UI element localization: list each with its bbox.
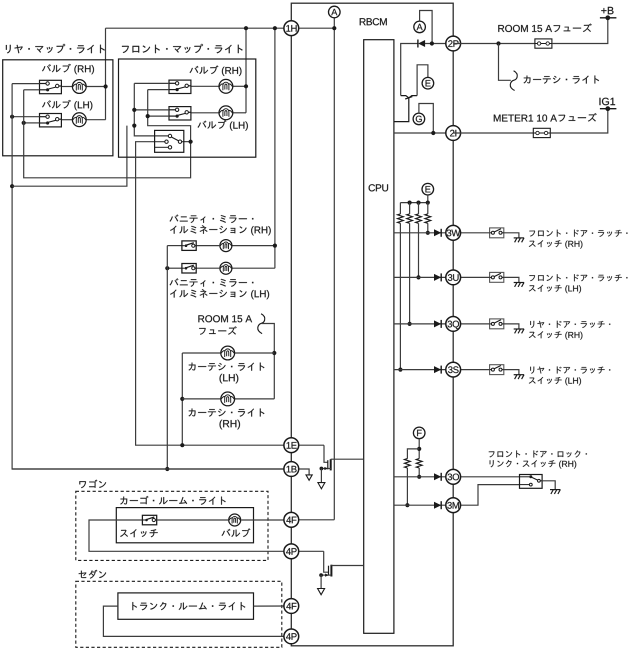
connector 1B [284,462,299,477]
CPU box [364,40,394,634]
wire: 3Q to door switch [453,323,489,325]
fuse: METER1 10 A [533,128,550,137]
label: +B [601,7,613,14]
wire: F branch left [407,449,419,459]
switch: front map LH [169,107,191,120]
label: sedan [79,570,106,579]
wire: front RH bulb to feed [233,85,247,87]
wire: rear LH switch to bulb [61,119,72,121]
connector 4P [284,629,299,644]
label: 3S line2 [529,377,581,385]
node: front link junction [132,124,136,128]
wire: room fuse to +B [552,18,608,44]
wire: 3U to door switch [453,276,489,278]
wire: pull-up R1 top stub [427,203,429,214]
resistor R1 [425,214,431,223]
label: 3W line2 [529,240,583,248]
wire: CPU input row 3M [394,504,453,506]
RBCM enclosure [291,3,453,646]
label: vanity mirror LH line1 [170,278,254,286]
label: CPU [369,184,388,191]
wire: CPU input row 3O [394,476,453,478]
node: rear bottom contacts junction [22,121,26,125]
sedan enclosure (dashed) [76,581,282,647]
resistor R6 [416,459,422,468]
diode: input row 3S [434,366,441,374]
wire: 1H to net-A vertical [291,18,334,520]
wire: CPU input row 3U [394,276,453,278]
node: door switch common junction [189,140,193,144]
wire: 3W to door switch [453,232,489,234]
node: rear top contacts junction [10,115,14,119]
node: G junction on 2I bus [431,131,435,135]
node: courtesy common on 1E wire [180,443,184,447]
ground: door latch 3U [514,283,524,287]
bulb: courtesy light LH [221,346,235,360]
terminal: IG1 [600,106,617,111]
label: front bulb LH [198,120,248,130]
label: 3Q line2 [529,331,583,339]
rear map light enclosure [3,60,113,156]
node: front bottom contacts junction [146,114,150,118]
node: vanity switches common junction [165,266,169,270]
node: vanity common on 1B wire [165,467,169,471]
wire: R6 to 3O row [418,468,420,477]
wire: 1E into RBCM [291,444,324,446]
wire: 1B ground stub [291,469,309,475]
label: courtesy RH line2 [220,420,240,430]
bulb: front map LH [219,106,233,120]
label: lock-link line2 [490,460,577,469]
wire: net-A to 4F [291,519,334,521]
wire: trunk unit to 4F [254,605,292,607]
trunk room light unit box [118,593,254,619]
node: feed junction at front drop [244,26,248,30]
switch: vanity mirror RH [182,241,196,251]
node: 2P feed junction [430,41,434,45]
label: cargo bulb [222,528,251,537]
connector 3W [446,225,461,240]
switch: front map door-interlock [155,130,191,152]
wire: front RH bottom contact left [148,89,169,91]
wire: CPU to 2I [394,132,453,134]
label: courtesy LH line2 [220,374,239,384]
wire: lock-link switch to ground [542,481,555,490]
node: courtesy branch junction [496,41,500,45]
wire: rear LH bottom contact left [24,122,40,124]
node: rear RH bulb feed junction [104,84,108,88]
node: net-A junction at 1H bus [332,26,336,30]
wire: front mid top contact left [134,109,169,111]
wire: vanity RH switch left [167,245,181,247]
wire: feed drop to rear map bulbs [105,28,107,120]
node: F junction [417,447,421,451]
wire: room-light feed bus (top) [106,27,292,29]
connector 4F [284,512,299,527]
label: RBCM [360,18,387,25]
diode: input row 3Q [434,320,441,328]
bulb: cargo room light [229,514,241,526]
bulb: courtesy light RH [221,392,235,406]
label: cargo switch [120,529,157,537]
wire: CPU input row 3Q [394,323,453,325]
label: ROOM 15 A fuse [498,24,591,32]
wire: pull-up R2 to input row [418,223,420,277]
cargo room light unit box [116,508,253,543]
node: courtesy RH junction [180,397,184,401]
wire: G hook to 2I bus [419,104,433,134]
wire: meter fuse to IG1 [550,109,608,133]
label: courtesy RH line1 [189,409,265,417]
resistor R5 [405,459,411,468]
bulb: front map RH [219,79,233,93]
switch: door latch (3Q) [490,319,504,329]
resistor R3 [407,214,413,223]
wire: rear lamp side down and across [24,90,191,178]
wire: front mid bottom contact left [148,115,169,117]
bulb: rear map RH [72,80,86,94]
wire: 2P to room fuse [453,43,535,45]
node: junction to front-map link [10,184,14,188]
label: 3S line1 [530,366,610,373]
connector 2P [446,36,461,51]
switch: door latch (3S) [490,365,504,375]
node: feed junction at vanity drop [273,26,277,30]
node: pull-up bus junction x=410 [408,201,412,205]
wire: 2I to meter fuse [453,132,533,134]
connector 3U [446,270,461,285]
ground: lock-link switch [550,490,560,494]
wire: net-A hook to diode [420,11,433,44]
connector 2I [446,126,461,141]
wire: rear switches common down to 1B [12,84,291,469]
label: 3U line2 [529,285,581,293]
wire: door switch 3W to ground [504,233,519,238]
connector 3M [446,498,461,513]
connector 1H [284,21,299,36]
switch: rear map RH [40,80,62,93]
label: room fuse reference line1 [198,315,252,322]
net label: E (driver) [422,77,434,89]
fuse: ROOM 15 A [535,39,552,48]
label: rear map light [6,44,105,53]
bulb: rear map LH [72,113,86,127]
node: pull-up bus junction x=428 [426,201,430,205]
connector 3O [446,469,461,484]
wire: 1B bus [12,468,291,470]
wire: pull-up R2 top stub [418,203,420,214]
label: METER1 10 A fuse [494,113,597,121]
wire: trunk unit loop to 4P [103,606,291,636]
wire: rear LH top contact left [12,116,39,118]
wire: cargo bulb to 4F [241,519,291,521]
switch: front map RH [169,80,191,93]
wire: pull-up R3 top stub [409,203,411,214]
net label: E (pull-ups) [422,183,434,195]
wire: courtesy LH row [182,352,274,354]
diode: input row 3W [434,229,441,237]
wire: front RH top contact left [134,82,169,84]
connector 1E [284,438,299,453]
wire: cargo switch loop to 4P [89,520,291,551]
label: wagon [79,480,106,489]
node: courtesy LH feed junction [272,351,276,355]
wire: 3O to lock-link switch [453,476,519,478]
diode: room feed (to 2P) [418,40,425,48]
switch: vanity mirror LH [182,264,196,274]
label: courtesy lights (reference) [524,76,599,84]
switch: cargo room light switch [142,515,156,525]
mosfet Q2: cargo light driver [318,551,364,594]
switch: door latch (3U) [490,272,504,282]
bulb: vanity mirror RH [220,240,232,252]
wire: door switch 3U to ground [504,277,519,282]
wire: pull-up R4 to input row [399,223,401,369]
connector 3S [446,362,461,377]
wire: pull-up R3 to input row [409,223,411,324]
wire: 4P into RBCM [291,550,323,552]
wire: diode to transistor [401,44,418,96]
wire: CPU input row 3W [394,232,453,234]
connector 3Q [446,317,461,332]
wire: vanity LH bulb to feed [233,267,275,269]
label: courtesy LH line1 [189,363,265,371]
wire: fuse feed to courtesy lights [261,324,274,399]
brace: room fuse reference [258,314,265,334]
connector 4F [284,599,299,614]
wire: E net to transistor [417,65,428,96]
wagon enclosure (dashed) [76,491,268,560]
wire: pull-up R4 top stub [399,203,401,214]
label: 3U line1 [529,274,627,281]
node: R4 junction on row [398,368,402,372]
net label: A (to 2P) [414,21,426,33]
wire: cargo switch to bulb [157,519,228,521]
wire: rear LH bulb to feed [86,119,106,121]
wire: CPU input row 3S [394,369,453,371]
wire: E to pull-up bus [427,195,429,203]
label: trunk room light [132,602,245,610]
wire: front mid switch to bulb [191,112,219,114]
wire: vanity common down to 1B [166,246,168,469]
wire: 3M loop to lock-link switch [453,485,519,506]
label: 3W line1 [529,230,627,237]
label: IG1 [599,98,615,106]
label: rear bulb LH [42,100,92,110]
node: R5 junction on 3M row [405,503,409,507]
node: pull-up bus junction x=418 [416,201,420,205]
front map light enclosure [119,59,256,157]
diode: input row 3M [434,501,441,509]
wire: front top contacts vertical [134,83,168,135]
mosfet Q1: room light driver [318,445,364,489]
node: R1 junction on row [426,231,430,235]
wire: vanity LH switch to bulb [197,267,220,269]
node: R6 junction on 3O row [417,475,421,479]
net label: G [413,113,425,125]
wire: front bottom contacts loop [148,90,191,142]
brace: courtesy lights reference [510,71,517,91]
wire: vanity LH switch left [167,267,181,269]
wire: door switch 3S to ground [504,370,519,375]
wire: pull-up R1 to input row [427,223,429,233]
label: room fuse reference line2 [199,326,236,334]
wire: R5 to 3M row [406,468,408,505]
node: R2 junction on row [416,275,420,279]
node: front RH bulb feed junction [244,84,248,88]
wire: rear RH bottom contact left [24,89,40,91]
node: R3 junction on row [408,322,412,326]
resistor R2 [416,214,422,223]
wire: rear RH bulb to feed [86,86,106,88]
diode: input row 3U [434,273,441,281]
wire: courtesy RH row [182,398,274,400]
resistor R4 [398,214,404,223]
switch: rear map LH [40,114,62,127]
wire: 3S to door switch [453,369,489,371]
label: lock-link line1 [489,450,587,457]
wire: feed drop to vanity bulbs [274,28,276,268]
net label: F [413,427,425,439]
wire: door switch 3Q to ground [504,324,519,329]
transistor: courtesy timer driver [394,96,417,122]
node: vanity RH feed junction [273,244,277,248]
label: front bulb RH [190,66,242,76]
wire: pull-up bus [400,202,427,204]
node: front top contacts junction [132,108,136,112]
net label: A (top) [329,6,341,18]
ground: door latch 3S [514,375,524,379]
wire: front RH switch to bulb [191,85,219,87]
wire: courtesy common vertical [181,353,183,445]
wire: feed drop to front map bulbs [245,28,247,113]
wire: front mid bulb to feed [233,112,247,114]
wire: link rear common to front third switch [12,126,127,187]
ground: door latch 3Q [514,329,524,333]
wire: door switch mid contact to 1E [136,142,292,446]
label: vanity mirror LH line2 [170,289,269,299]
terminal: +B [600,15,617,20]
wire: rear RH switch to bulb [61,86,72,88]
ground: door latch 3W [514,238,524,242]
wire: vanity RH bulb to feed [233,245,275,247]
bulb: vanity mirror LH [220,262,232,274]
diode: input row 3O [434,473,441,481]
wire: diode to 2P [425,43,453,45]
ground: 1B internal [306,475,312,480]
label: cargo room light [120,496,225,505]
label: vanity mirror RH line2 [170,225,271,235]
wire: courtesy branch [499,44,511,81]
wire: vanity RH switch to bulb [197,245,220,247]
label: front map light [122,44,243,53]
label: rear bulb RH [42,64,94,74]
label: vanity mirror RH line1 [170,215,254,223]
switch: front door lock-link (RH) [520,475,543,489]
label: 3Q line1 [530,321,610,328]
wire: rear RH top contact left [12,83,39,85]
switch: door latch (3W) [490,228,504,238]
wire: F to pull-up pair [418,439,420,459]
connector 4P [284,544,299,559]
